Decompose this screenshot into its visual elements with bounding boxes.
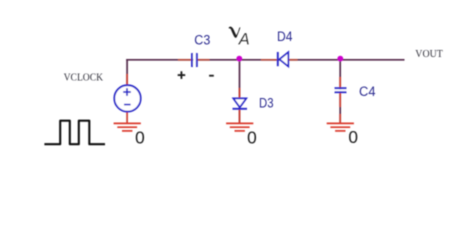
svg-text:0: 0 [135,127,145,147]
svg-text:C3: C3 [194,32,210,47]
svg-text:0: 0 [348,127,358,147]
svg-text:C4: C4 [359,84,376,99]
svg-text:VOUT: VOUT [415,49,443,60]
svg-text:0: 0 [247,127,257,147]
svg-text:A: A [238,31,250,49]
svg-text:D3: D3 [259,95,274,110]
svg-text:D4: D4 [277,29,293,44]
svg-text:VCLOCK: VCLOCK [64,72,104,83]
